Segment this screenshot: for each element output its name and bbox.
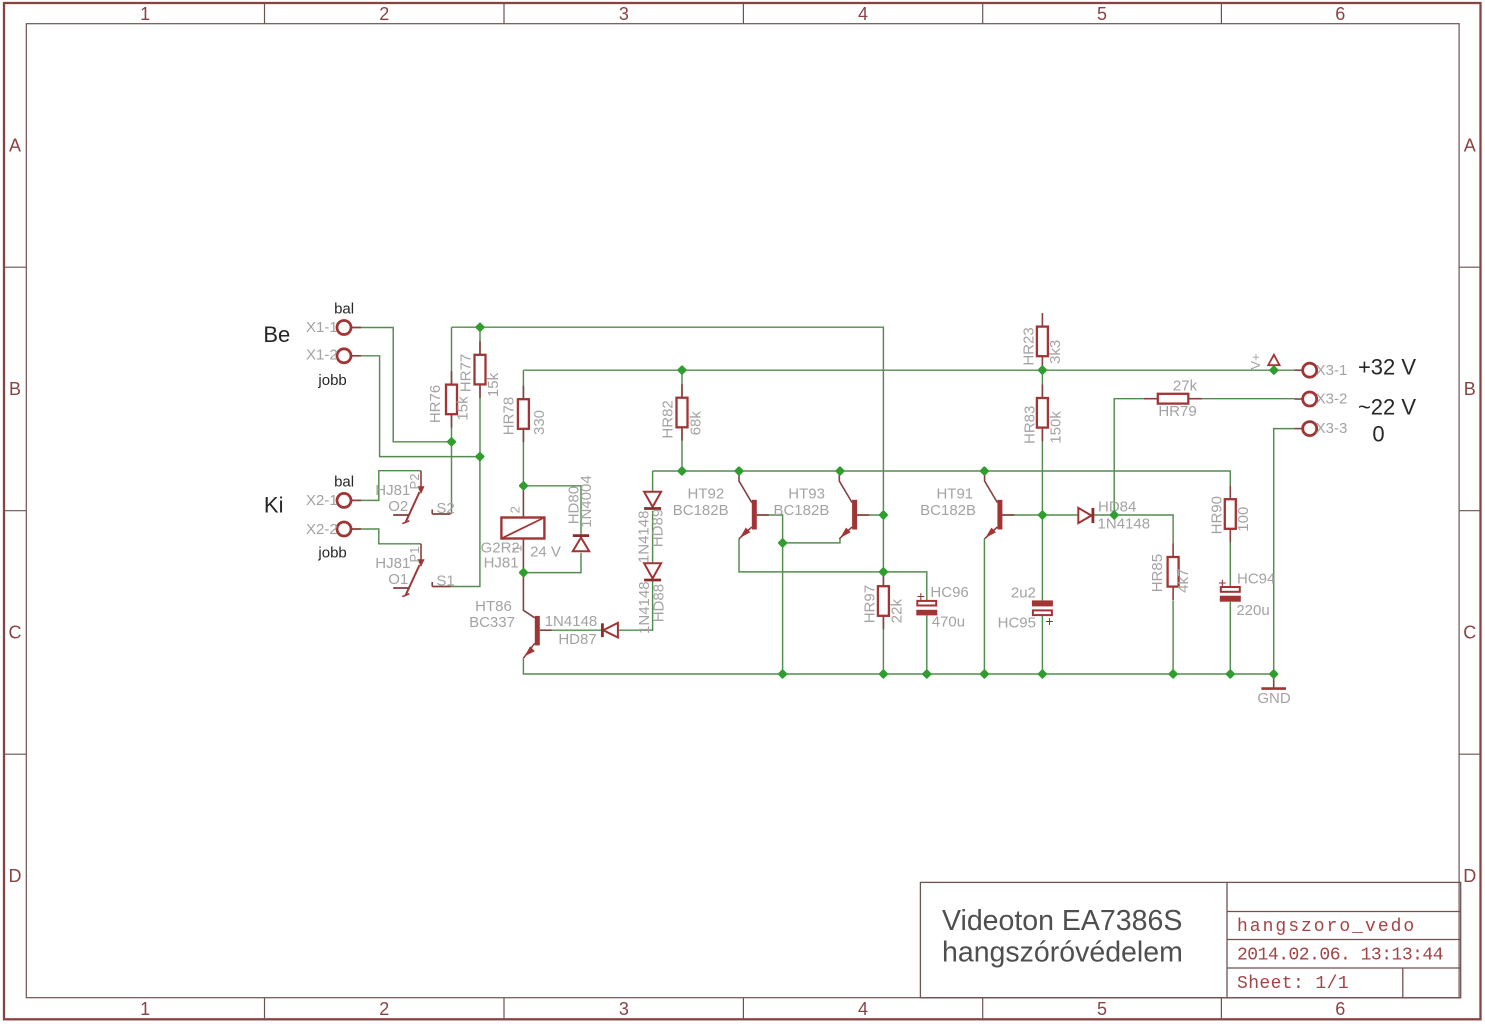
wire diode chain HD89-HD88: [618, 471, 653, 630]
svg-text:+32 V: +32 V: [1358, 354, 1416, 379]
svg-text:150k: 150k: [1048, 411, 1065, 444]
svg-text:HR83: HR83: [1022, 406, 1039, 444]
svg-text:B: B: [9, 379, 21, 399]
svg-text:O2: O2: [388, 498, 408, 515]
svg-text:+: +: [1045, 613, 1053, 629]
svg-text:1N4148: 1N4148: [1098, 516, 1151, 533]
svg-text:C: C: [1463, 623, 1476, 643]
svg-text:BC182B: BC182B: [920, 502, 976, 519]
frame column ticks top: [265, 3, 1222, 24]
pad X3-2: [1303, 391, 1348, 408]
title block box: [920, 882, 1460, 997]
resistor HR83 (150k): [1022, 385, 1065, 444]
svg-text:4: 4: [858, 999, 868, 1019]
wire HT93 base: [857, 514, 884, 516]
pad stub X3-1: [1295, 369, 1303, 371]
svg-text:bal: bal: [334, 474, 354, 491]
svg-text:HC96: HC96: [930, 584, 968, 601]
svg-text:Be: Be: [263, 322, 290, 347]
svg-text:6: 6: [1335, 999, 1345, 1019]
wire X2-2 to contact P1: [352, 529, 421, 544]
resistor HR85 (4k7): [1149, 544, 1192, 601]
svg-text:HT91: HT91: [936, 486, 973, 503]
svg-text:HR97: HR97: [861, 585, 878, 623]
svg-text:D: D: [1463, 866, 1476, 886]
svg-text:+: +: [917, 588, 925, 604]
wire X3-3 to ground rail: [1274, 429, 1295, 674]
svg-text:X3-1: X3-1: [1316, 362, 1348, 379]
wire HR97 bottom to ground rail: [882, 616, 884, 674]
wire X1-2 net to HR77 bottom: [352, 356, 480, 457]
capacitor HC94 (220u) polarized: [1218, 570, 1275, 619]
svg-text:S1: S1: [436, 573, 454, 590]
svg-text:68k: 68k: [687, 411, 704, 436]
svg-text:1: 1: [140, 999, 150, 1019]
svg-text:0: 0: [1372, 422, 1384, 447]
wire HT92 base down to ground rail: [757, 515, 783, 674]
svg-text:HD89: HD89: [649, 509, 666, 547]
transistor HT92 (BC182B): [673, 471, 769, 539]
wire X1-1 net to HR76 bottom: [352, 328, 452, 442]
svg-text:bal: bal: [334, 300, 354, 317]
wire HT86 base to HD87: [541, 629, 602, 631]
ground symbol GND: [1257, 674, 1291, 707]
wire HR83 to HC95 to ground rail: [1041, 370, 1043, 674]
svg-text:BC182B: BC182B: [773, 502, 829, 519]
transistor HT93 (BC182B): [773, 471, 869, 539]
svg-text:GND: GND: [1257, 690, 1291, 707]
svg-text:~22 V: ~22 V: [1358, 394, 1416, 419]
svg-text:1N4004: 1N4004: [578, 475, 595, 528]
svg-text:HR79: HR79: [1158, 403, 1196, 420]
pad X3-3: [1303, 420, 1348, 437]
title text Videoton EA7386S hangszorovedelem: [942, 905, 1183, 968]
pad X1-1: [306, 319, 351, 336]
svg-text:4: 4: [858, 4, 868, 24]
wire HR82 column: [681, 370, 683, 471]
svg-text:X2-1: X2-1: [306, 492, 338, 509]
svg-text:HC95: HC95: [998, 614, 1036, 631]
relay coil G2R2 HJ81 24V: [481, 486, 561, 573]
wire HR76 top to sense line to HT93 column: [452, 327, 884, 586]
pad stub X3-3: [1295, 428, 1303, 430]
resistor HR76 (15k): [427, 371, 472, 428]
transistor HT91 (BC182B): [920, 471, 1014, 539]
svg-text:HJ81: HJ81: [375, 482, 410, 499]
diode HD87 (1N4148) pointing left: [545, 613, 618, 648]
svg-text:HD84: HD84: [1098, 498, 1136, 515]
svg-text:2u2: 2u2: [1011, 585, 1036, 602]
svg-text:D: D: [9, 866, 22, 886]
svg-text:5: 5: [1097, 999, 1107, 1019]
svg-text:HD88: HD88: [650, 584, 667, 622]
frame column ticks bottom: [265, 998, 1222, 1020]
svg-text:HJ81: HJ81: [375, 555, 410, 572]
pad stub X2-1: [351, 499, 361, 501]
svg-text:24 V: 24 V: [530, 543, 561, 560]
wire node to HR79 left: [1114, 399, 1144, 515]
svg-text:X2-2: X2-2: [306, 521, 338, 538]
pad X2-1: [306, 492, 351, 509]
diode HD89 (1N4148): [636, 492, 667, 563]
svg-text:HR23: HR23: [1021, 327, 1038, 365]
frame column numbers top: [140, 4, 1345, 24]
wire node to HR85: [1114, 515, 1173, 674]
junction dots: [448, 324, 1277, 677]
wire HT91 emitter to ground rail: [983, 539, 985, 674]
diode HD84 (1N4148) pointing right: [1078, 498, 1150, 532]
svg-text:HC94: HC94: [1237, 570, 1275, 587]
svg-text:15k: 15k: [454, 396, 471, 421]
wire HC96 bottom to ground rail: [926, 615, 928, 674]
resistor HR90 (100): [1209, 486, 1252, 543]
pad stub X1-2: [351, 355, 361, 357]
svg-text:A: A: [1464, 136, 1476, 156]
pad X1-2: [306, 347, 351, 364]
svg-text:2014.02.06. 13:13:44: 2014.02.06. 13:13:44: [1237, 946, 1443, 966]
svg-text:B: B: [1464, 379, 1476, 399]
frame row ticks left: [4, 267, 26, 754]
wire +32V rail: [523, 369, 1294, 371]
svg-text:X3-3: X3-3: [1316, 420, 1348, 437]
svg-text:3k3: 3k3: [1047, 340, 1064, 364]
wire HT93 emitter: [783, 539, 840, 543]
svg-text:X1-2: X1-2: [306, 347, 338, 364]
svg-text:hangszoro_vedo: hangszoro_vedo: [1237, 917, 1416, 937]
wire HD84 cathode to node: [1093, 514, 1114, 516]
resistor HR78 (330): [501, 386, 548, 443]
svg-text:3: 3: [619, 4, 629, 24]
svg-text:HR82: HR82: [660, 400, 677, 438]
wire HT92 emitter to HC96 top: [739, 539, 927, 601]
svg-text:470u: 470u: [932, 614, 965, 631]
svg-text:2: 2: [508, 506, 523, 513]
svg-text:22k: 22k: [888, 599, 905, 624]
wire HR76 bottom to contact S2: [451, 327, 453, 514]
wire X2-1 to contact P2: [352, 471, 421, 501]
resistor HR23 (3k3): [1021, 313, 1065, 370]
pad stub X2-2: [351, 528, 361, 530]
svg-text:15k: 15k: [485, 372, 502, 397]
svg-text:330: 330: [531, 410, 548, 435]
svg-text:S2: S2: [436, 500, 454, 517]
svg-text:2: 2: [379, 4, 389, 24]
svg-text:HT93: HT93: [788, 486, 825, 503]
svg-text:hangszóróvédelem: hangszóróvédelem: [942, 936, 1183, 968]
svg-text:3: 3: [619, 999, 629, 1019]
svg-text:A: A: [9, 136, 21, 156]
svg-text:HR77: HR77: [457, 354, 474, 392]
svg-text:4k7: 4k7: [1175, 569, 1192, 593]
wire HD84 anode: [1042, 514, 1078, 516]
resistor HR97 (22k): [861, 573, 905, 630]
svg-text:Ki: Ki: [264, 493, 284, 518]
relay contact P2/O2/S2: [375, 471, 454, 524]
svg-text:220u: 220u: [1236, 602, 1269, 619]
svg-text:jobb: jobb: [317, 372, 346, 389]
capacitor HC96 (470u) polarized: [916, 584, 968, 631]
svg-text:Videoton EA7386S: Videoton EA7386S: [942, 905, 1182, 937]
wire collector rail: [653, 471, 1231, 499]
wire bottom ground rail: [523, 658, 1273, 674]
svg-text:HT86: HT86: [475, 598, 512, 615]
pad X3-1: [1303, 362, 1348, 379]
svg-text:HR90: HR90: [1209, 496, 1226, 534]
pad stub X3-2: [1295, 398, 1303, 400]
svg-text:1: 1: [140, 4, 150, 24]
diode HD88 (1N4148): [636, 563, 667, 634]
capacitor HC95 (2u2) polarized: [998, 585, 1054, 632]
svg-text:C: C: [9, 623, 22, 643]
svg-text:1N4148: 1N4148: [545, 613, 598, 630]
svg-text:BC182B: BC182B: [673, 502, 729, 519]
wire relay top to diode HD80: [524, 486, 582, 535]
frame row letters right: [1463, 136, 1476, 886]
svg-text:HR85: HR85: [1149, 554, 1166, 592]
supply symbol V+: [1248, 353, 1280, 370]
wire HR77 column and S1 route: [451, 327, 481, 586]
frame row ticks right: [1459, 267, 1480, 754]
wire HR79 right to X3-2: [1202, 398, 1294, 400]
svg-text:X3-2: X3-2: [1316, 391, 1348, 408]
svg-text:jobb: jobb: [317, 545, 346, 562]
resistor HR82 (68k): [660, 384, 705, 441]
wire HT91 base to HR83 column: [1002, 514, 1043, 516]
svg-text:BC337: BC337: [469, 614, 515, 631]
svg-text:HT92: HT92: [688, 486, 725, 503]
svg-text:2: 2: [379, 999, 389, 1019]
svg-text:5: 5: [1097, 4, 1107, 24]
svg-text:O1: O1: [388, 571, 408, 588]
relay contact P1/O1/S1: [375, 544, 454, 597]
svg-text:HR76: HR76: [427, 385, 444, 423]
wire HR90 bottom to HC94 and ground: [1229, 529, 1231, 674]
svg-text:X1-1: X1-1: [306, 319, 338, 336]
svg-text:HJ81: HJ81: [484, 554, 519, 571]
frame row letters left: [9, 136, 22, 886]
pad stub X1-1: [351, 327, 361, 329]
wire HR78 top / relay column: [522, 370, 524, 486]
resistor HR79 (27k): [1144, 377, 1203, 420]
wire diode HD80 anode return: [524, 553, 582, 573]
svg-text:6: 6: [1335, 4, 1345, 24]
svg-text:100: 100: [1235, 507, 1252, 532]
svg-text:+: +: [1218, 574, 1226, 590]
resistor HR77 (15k): [457, 341, 502, 398]
diode HD80 (1N4004) relay flyback: [565, 475, 595, 551]
svg-text:Sheet: 1/1: Sheet: 1/1: [1237, 974, 1349, 994]
svg-text:V+: V+: [1248, 353, 1263, 369]
frame column numbers bottom: [140, 999, 1345, 1019]
svg-text:HR78: HR78: [501, 397, 518, 435]
svg-text:HD87: HD87: [558, 631, 596, 648]
pad X2-2: [306, 521, 351, 538]
svg-text:27k: 27k: [1173, 377, 1198, 394]
transistor HT86 (BC337): [469, 573, 552, 659]
